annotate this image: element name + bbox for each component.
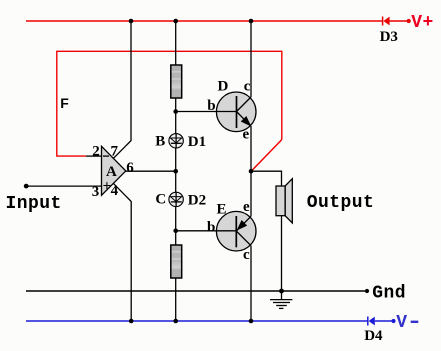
wire speaker to ground bbox=[281, 216, 283, 291]
svg-text:Gnd: Gnd bbox=[372, 284, 406, 304]
svg-text:D3: D3 bbox=[380, 29, 398, 45]
node top rail junction x=131 bbox=[129, 19, 134, 24]
svg-text:2: 2 bbox=[92, 143, 100, 159]
resistor lower bbox=[171, 245, 182, 278]
svg-text:V: V bbox=[396, 313, 407, 333]
svg-text:V+: V+ bbox=[411, 13, 434, 33]
net V- rail (blue) bbox=[26, 320, 368, 322]
wire x=176 top rail to resistor bbox=[175, 21, 177, 65]
svg-text:D: D bbox=[218, 79, 229, 95]
svg-text:D1: D1 bbox=[188, 134, 206, 150]
svg-text:C: C bbox=[155, 192, 166, 208]
svg-text:c: c bbox=[243, 247, 250, 263]
ground symbol bbox=[270, 291, 292, 308]
node C junction bbox=[173, 229, 178, 234]
diode D4 bbox=[368, 317, 396, 326]
diode D2 bbox=[169, 192, 183, 206]
wire output node to speaker bbox=[251, 171, 282, 186]
net V+ rail (red) bbox=[26, 20, 383, 22]
op-amp A bbox=[102, 146, 126, 195]
wire base of E bbox=[176, 230, 237, 232]
svg-text:A: A bbox=[106, 164, 117, 180]
svg-text:Input: Input bbox=[6, 194, 62, 214]
wire feedback F (red) from output node to op-amp pin 2 bbox=[57, 51, 282, 171]
wire pin2 stub (black) bbox=[86, 155, 102, 157]
diode D1 bbox=[169, 134, 183, 148]
wire emitter D to output node bbox=[250, 126, 252, 216]
svg-text:b: b bbox=[207, 220, 215, 236]
wire resistor to base node B bbox=[175, 98, 177, 134]
svg-text:D4: D4 bbox=[364, 328, 383, 344]
svg-text:F: F bbox=[60, 95, 69, 111]
node V- rail junction x=251 bbox=[249, 319, 254, 324]
wire op-amp pin 7 to V+ bbox=[114, 21, 131, 158]
wire collector E to V- bbox=[250, 246, 252, 321]
svg-text:7: 7 bbox=[111, 144, 119, 160]
svg-text:c: c bbox=[244, 79, 251, 95]
wire V+ to collector of D bbox=[250, 21, 252, 97]
diode D3 bbox=[383, 17, 411, 26]
wire resistor to V- bbox=[175, 278, 177, 321]
wire D2 to base node C bbox=[175, 207, 177, 245]
node V- rail junction x=131 bbox=[129, 319, 134, 324]
node top rail junction x=176 bbox=[173, 19, 178, 24]
svg-text:4: 4 bbox=[111, 183, 119, 199]
resistor upper bbox=[171, 65, 182, 98]
node D1/D2 junction bbox=[173, 169, 178, 174]
node V- rail junction x=176 bbox=[173, 319, 178, 324]
svg-text:Output: Output bbox=[307, 193, 375, 213]
svg-text:e: e bbox=[243, 199, 250, 215]
svg-text:6: 6 bbox=[126, 160, 134, 176]
wire D1 to D2 with output-of-opamp node bbox=[175, 148, 177, 192]
transistor E (PNP) bbox=[216, 211, 256, 251]
svg-text:E: E bbox=[217, 201, 227, 217]
wire base of D bbox=[176, 111, 237, 113]
svg-text:B: B bbox=[155, 134, 165, 150]
node output junction bbox=[249, 169, 254, 174]
node top rail junction x=251 bbox=[249, 19, 254, 24]
node input terminal bbox=[24, 184, 29, 189]
net Gnd rail (black) bbox=[26, 289, 369, 293]
svg-text:b: b bbox=[207, 98, 215, 114]
node B junction bbox=[173, 109, 178, 114]
wire op-amp pin 4 to V- bbox=[113, 183, 131, 321]
node gnd junction bbox=[279, 289, 284, 294]
svg-text:3: 3 bbox=[92, 184, 100, 200]
wire op-amp output pin 6 bbox=[126, 170, 176, 172]
wire input bbox=[26, 185, 101, 187]
speaker bbox=[276, 179, 292, 223]
svg-text:D2: D2 bbox=[188, 192, 206, 208]
transistor D (NPN) bbox=[216, 92, 256, 132]
svg-text:e: e bbox=[243, 126, 250, 142]
